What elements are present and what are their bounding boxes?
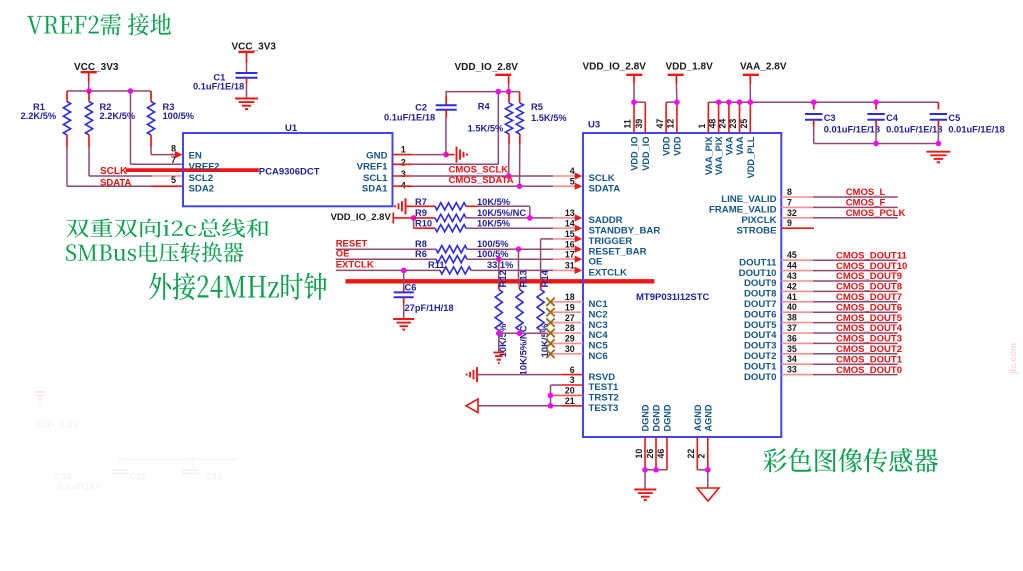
U3 rotated pin name DGND (pin 10) bbox=[641, 404, 651, 431]
wire R10 to STANDBY_BAR pin14 bbox=[466, 225, 582, 232]
svg-text:CMOS_L: CMOS_L bbox=[846, 187, 886, 198]
node junction VAA bus x=718.6 bbox=[716, 99, 722, 105]
svg-text:18: 18 bbox=[565, 292, 575, 302]
U3 rotated pin number 2 bbox=[697, 454, 707, 459]
svg-text:SDA1: SDA1 bbox=[362, 183, 388, 194]
U3 pin name STANDBY_BAR bbox=[589, 225, 661, 236]
power symbol VDD_1.8V (U3) bbox=[666, 61, 714, 102]
svg-text:100/5%: 100/5% bbox=[163, 111, 195, 121]
power symbol VCC_3V3 (above C1) bbox=[232, 42, 277, 74]
annotation text '外接24MHz时钟' (green) bbox=[149, 273, 327, 301]
wire VREF1 pin2 riser bbox=[393, 92, 499, 165]
svg-text:25: 25 bbox=[739, 119, 749, 129]
wire R3 to EN pin 8 bbox=[151, 147, 183, 158]
wire R2 to SCL2 bbox=[89, 147, 183, 176]
U3 pin number 8 (LINE_VALID) bbox=[787, 187, 792, 197]
svg-text:C2: C2 bbox=[415, 103, 427, 113]
svg-text:VAA_2.8V: VAA_2.8V bbox=[740, 61, 787, 72]
svg-text:0.01uF/1E/18: 0.01uF/1E/18 bbox=[886, 124, 942, 134]
resistor R13 bbox=[516, 270, 530, 375]
svg-text:VAA_PIX: VAA_PIX bbox=[704, 136, 714, 176]
power symbol VDD_IO_2.8V (above R4/R5) bbox=[455, 62, 519, 92]
svg-text:NC5: NC5 bbox=[589, 341, 609, 352]
svg-text:24: 24 bbox=[718, 119, 728, 129]
wire VAA top bus bbox=[708, 101, 938, 103]
U3 pin name DOUT2 bbox=[744, 351, 777, 362]
svg-text:7: 7 bbox=[787, 197, 792, 207]
annotation text 'SMBus电压转换器' (green) bbox=[66, 242, 244, 263]
U3 pin name EXTCLK bbox=[589, 268, 627, 279]
net label CMOS_DOUT11 (red) bbox=[836, 250, 907, 261]
svg-text:CMOS_DOUT2: CMOS_DOUT2 bbox=[836, 344, 902, 355]
U1 pin name SCL1 bbox=[363, 173, 388, 184]
faint pink watermark right edge bbox=[1008, 343, 1018, 375]
U3 pin number 43 (DOUT9) bbox=[787, 271, 797, 281]
wire TEST3 pin21 bbox=[478, 405, 583, 407]
wire RSVD pin6 bbox=[477, 374, 583, 376]
wire CMOS_PCLK net bbox=[781, 217, 897, 219]
svg-text:DOUT2: DOUT2 bbox=[744, 351, 777, 362]
svg-text:C3: C3 bbox=[824, 113, 836, 123]
wire CMOS_F net bbox=[781, 206, 897, 208]
U3 rotated pin name AGND (pin 22) bbox=[693, 404, 703, 431]
svg-text:VDD_IO_2.8V: VDD_IO_2.8V bbox=[583, 61, 647, 72]
U3 rotated pin number 25 bbox=[739, 119, 749, 129]
svg-text:C10: C10 bbox=[55, 472, 72, 482]
node junction C6/EXTCLK bbox=[401, 268, 407, 274]
U3 pin number 3 (TEST1) bbox=[570, 375, 575, 385]
wire R5 to SDATA bbox=[519, 144, 521, 186]
U3 pin number 9 (STROBE) bbox=[787, 218, 792, 228]
wire CMOS_L net bbox=[781, 196, 897, 198]
svg-text:4: 4 bbox=[401, 180, 406, 190]
U1 pin name VREF2 bbox=[189, 162, 220, 173]
wire CMOS_DOUT11 net bbox=[781, 259, 897, 261]
svg-text:NC6: NC6 bbox=[589, 351, 608, 362]
U3 pin stub 48 (VAA_PIX) bbox=[718, 102, 720, 133]
net label RESET (red) bbox=[336, 239, 368, 250]
wire CMOS_DOUT9 net bbox=[781, 280, 897, 282]
U1 pin number 8 bbox=[171, 143, 176, 153]
svg-text:R4: R4 bbox=[478, 102, 491, 112]
wire EXTCLK to R11 bbox=[336, 269, 440, 271]
U1 pin name SCL2 bbox=[189, 173, 214, 184]
wire CMOS_DOUT10 net bbox=[781, 270, 897, 272]
svg-text:29: 29 bbox=[565, 334, 575, 344]
svg-text:PIXCLK: PIXCLK bbox=[741, 215, 776, 226]
power symbol VDD_IO_2.8V (U3) bbox=[583, 61, 647, 102]
U3 pin number 34 (DOUT1) bbox=[787, 354, 797, 364]
svg-text:5: 5 bbox=[171, 175, 176, 185]
U3 rotated pin number 48 bbox=[707, 119, 717, 129]
node junction C4 top bbox=[873, 99, 879, 105]
svg-text:R5: R5 bbox=[531, 102, 543, 112]
net label CMOS_DOUT2 (red) bbox=[836, 344, 902, 355]
U3 pin name SADDR bbox=[589, 215, 623, 226]
U3 pin name TRIGGER bbox=[589, 236, 633, 247]
U3 pin number 42 (DOUT8) bbox=[787, 281, 797, 291]
svg-text:12: 12 bbox=[666, 119, 676, 129]
U1 pin name SDA1 bbox=[362, 183, 388, 194]
resistor R14 bbox=[537, 269, 551, 357]
U3 pin name LINE_VALID bbox=[721, 194, 776, 205]
U3 pin number 32 (PIXCLK) bbox=[787, 208, 797, 218]
U3 rotated pin name DGND (pin 46) bbox=[663, 404, 673, 431]
wire R12-R14 bottom bus bbox=[499, 330, 548, 333]
svg-text:NC3: NC3 bbox=[589, 320, 608, 331]
node junction VAA bus x=739.5 bbox=[737, 99, 743, 105]
U1 pin name SDA2 bbox=[189, 183, 215, 194]
svg-text:EXTCLK: EXTCLK bbox=[589, 268, 627, 279]
svg-text:DOUT1: DOUT1 bbox=[744, 361, 777, 372]
svg-text:44: 44 bbox=[787, 261, 797, 271]
svg-text:R11: R11 bbox=[428, 260, 445, 270]
IC U3 box (MT9P031I12STC image sensor) bbox=[583, 120, 781, 438]
svg-text:10: 10 bbox=[634, 449, 644, 459]
svg-text:R13: R13 bbox=[519, 270, 530, 287]
svg-text:CMOS_DOUT11: CMOS_DOUT11 bbox=[836, 250, 907, 261]
svg-text:C11: C11 bbox=[130, 472, 147, 482]
svg-text:NC2: NC2 bbox=[589, 309, 608, 320]
ground (C5 bus) bbox=[926, 152, 950, 163]
wire CMOS_SDATA net bbox=[393, 183, 583, 190]
U3 pin number 33 (DOUT0) bbox=[787, 365, 797, 375]
U3 pin number 30 (NC6) bbox=[565, 344, 575, 354]
wire CMOS_DOUT2 net bbox=[781, 353, 897, 355]
U3 rotated pin name VDD_IO (pin 11) bbox=[630, 137, 640, 171]
annotation text '彩色图像传感器' (green) bbox=[763, 448, 938, 473]
svg-text:VAA: VAA bbox=[724, 136, 734, 155]
wire R12 riser bbox=[498, 259, 500, 289]
svg-text:CMOS_PCLK: CMOS_PCLK bbox=[846, 208, 906, 219]
U3 pin number 21 (TEST3) bbox=[565, 396, 575, 406]
svg-text:100/5%: 100/5% bbox=[477, 239, 509, 249]
svg-text:2.2K/5%: 2.2K/5% bbox=[21, 111, 57, 121]
resistor R4 bbox=[468, 92, 513, 145]
svg-text:VDD: VDD bbox=[662, 136, 672, 156]
svg-text:VDD_IO_2.8V: VDD_IO_2.8V bbox=[455, 62, 519, 73]
svg-text:14: 14 bbox=[565, 218, 575, 228]
svg-text:17: 17 bbox=[565, 249, 575, 259]
resistor R12 bbox=[495, 270, 509, 357]
U3 pin name DOUT9 bbox=[744, 278, 777, 289]
ground (sideways, RSVD) bbox=[467, 367, 477, 382]
thick red SCLK highlight line bbox=[126, 168, 259, 172]
resistor R9 bbox=[414, 208, 527, 222]
U3 pin name DOUT8 bbox=[744, 289, 777, 300]
U3 pin number 35 (DOUT2) bbox=[787, 344, 797, 354]
U3 pin number 6 (RSVD) bbox=[570, 365, 575, 375]
net label CMOS_DOUT0 (red) bbox=[836, 365, 902, 376]
svg-text:SDATA: SDATA bbox=[589, 183, 621, 194]
capacitor C1 bbox=[193, 72, 258, 91]
svg-text:GND: GND bbox=[366, 151, 387, 162]
ground (R12 bus) bbox=[493, 353, 504, 364]
U3 pin number 17 (OE) bbox=[565, 249, 575, 259]
U3 pin name TEST1 bbox=[589, 382, 620, 393]
svg-text:22: 22 bbox=[686, 449, 696, 459]
U3 pin name NC1 bbox=[589, 299, 609, 310]
wire NC5 stub with no-connect X bbox=[546, 339, 583, 347]
U3 pin stubs 10/26/46 (DGND) bbox=[645, 437, 667, 470]
U3 pin number 14 (STANDBY_BAR) bbox=[565, 218, 575, 228]
U1 pin number 5 bbox=[171, 175, 176, 185]
svg-text:DGND: DGND bbox=[663, 404, 673, 431]
svg-text:DGND: DGND bbox=[641, 404, 651, 431]
U3 rotated pin name VAA_PIX (pin 1) bbox=[704, 136, 714, 176]
node junction C5 bottom bbox=[936, 141, 942, 147]
node junction power/top net bbox=[506, 89, 512, 95]
net label EXTCLK (red) bbox=[336, 260, 374, 271]
wire R1 to SDA2 bbox=[67, 147, 183, 186]
U1 pin number 2 bbox=[401, 157, 406, 167]
ground (sideways, R7) bbox=[395, 198, 435, 214]
svg-text:CMOS_DOUT1: CMOS_DOUT1 bbox=[836, 354, 903, 365]
wire TRIGGER riser to R14 bbox=[541, 235, 583, 289]
node junction VREF2 tap bbox=[128, 88, 134, 94]
U3 pin name SCLK bbox=[589, 173, 615, 184]
resistor R7 bbox=[415, 197, 511, 210]
U3 pin name NC2 bbox=[589, 309, 608, 320]
svg-text:SDA2: SDA2 bbox=[189, 183, 215, 194]
svg-text:6: 6 bbox=[570, 365, 575, 375]
U3 pin stub 23 (VAA) bbox=[739, 102, 741, 133]
svg-text:45: 45 bbox=[787, 250, 797, 260]
svg-text:32: 32 bbox=[787, 208, 797, 218]
U3 rotated pin number 26 bbox=[645, 449, 655, 459]
svg-text:DOUT10: DOUT10 bbox=[739, 268, 777, 279]
svg-text:10K/5%: 10K/5% bbox=[477, 219, 511, 229]
wire NC4 stub with no-connect X bbox=[546, 329, 583, 337]
node junction R5/SDATA bbox=[517, 183, 523, 189]
U3 pin number 13 (SADDR) bbox=[565, 208, 575, 218]
svg-text:37: 37 bbox=[787, 323, 797, 333]
U3 pin stub 1 (VAA_PIX) bbox=[707, 102, 709, 133]
U3 rotated pin number 47 bbox=[655, 119, 665, 129]
svg-text:MT9P031I12STC: MT9P031I12STC bbox=[636, 292, 710, 303]
svg-text:3: 3 bbox=[401, 169, 406, 179]
svg-text:5: 5 bbox=[570, 176, 575, 186]
ground (sideways, U1 GND) bbox=[446, 147, 467, 163]
U3 pin name NC6 bbox=[589, 351, 608, 362]
net label CMOS_SDATA (red) bbox=[449, 175, 514, 186]
U3 pin name DOUT4 bbox=[744, 330, 777, 341]
svg-text:VDD_2.8V: VDD_2.8V bbox=[34, 420, 80, 431]
node junction R4/SCLK bbox=[506, 173, 512, 179]
net label CMOS_DOUT5 (red) bbox=[836, 313, 903, 324]
svg-text:jlc.com: jlc.com bbox=[1008, 343, 1018, 375]
wire CMOS_DOUT7 net bbox=[781, 301, 897, 303]
svg-text:R10: R10 bbox=[415, 219, 432, 229]
U3 pin number 31 (EXTCLK) bbox=[565, 261, 575, 271]
U3 pin number 19 (NC2) bbox=[565, 302, 575, 312]
svg-text:38: 38 bbox=[787, 313, 797, 323]
svg-text:DOUT5: DOUT5 bbox=[744, 320, 777, 331]
wire CMOS_DOUT8 net bbox=[781, 290, 897, 292]
wire DGND to ground bbox=[644, 470, 646, 490]
svg-text:EXTCLK: EXTCLK bbox=[336, 260, 374, 271]
node junction VDD bbox=[674, 99, 680, 105]
node junction R13 bottom bbox=[517, 331, 523, 337]
svg-text:LINE_VALID: LINE_VALID bbox=[721, 194, 776, 205]
wire CMOS_DOUT4 net bbox=[781, 332, 897, 334]
svg-text:11: 11 bbox=[623, 119, 633, 128]
U3 rotated pin name VDD (pin 47) bbox=[662, 136, 672, 156]
svg-text:1.5K/5%: 1.5K/5% bbox=[531, 113, 567, 123]
U3 rotated pin name AGND (pin 2) bbox=[703, 404, 713, 431]
svg-text:RSVD: RSVD bbox=[589, 372, 616, 383]
net label CMOS_DOUT1 (red) bbox=[836, 354, 903, 365]
svg-text:27pF/1H/18: 27pF/1H/18 bbox=[405, 303, 454, 313]
net label CMOS_DOUT9 (red) bbox=[836, 271, 902, 282]
no-ERC marker triangle (TEST3) bbox=[466, 399, 478, 413]
U3 pin number 36 (DOUT3) bbox=[787, 333, 797, 343]
U3 pin name DOUT11 bbox=[739, 257, 777, 268]
svg-text:7: 7 bbox=[171, 155, 176, 165]
svg-text:0.1uF/1E/18: 0.1uF/1E/18 bbox=[193, 82, 244, 92]
U3 pin number 15 (TRIGGER) bbox=[565, 229, 575, 239]
wire R9/R10 left riser bbox=[413, 218, 415, 228]
U3 pin number 16 (RESET_BAR) bbox=[565, 239, 575, 249]
U3 pin number 45 (DOUT11) bbox=[787, 250, 797, 260]
svg-text:DGND: DGND bbox=[652, 404, 662, 431]
svg-text:R6: R6 bbox=[415, 249, 427, 259]
svg-text:1.5K/5%: 1.5K/5% bbox=[468, 124, 504, 134]
wire C1 to ground bbox=[246, 78, 248, 99]
U3 pin stubs 11/39 (VDD_IO) bbox=[634, 102, 645, 133]
U3 rotated pin number 46 bbox=[656, 449, 666, 459]
annotation text 'VREF2需 接地' (green) bbox=[27, 13, 171, 35]
U3 pin name DOUT1 bbox=[744, 361, 777, 372]
svg-text:13: 13 bbox=[565, 208, 575, 218]
U3 pin name STROBE bbox=[737, 225, 778, 236]
U3 pin name DOUT10 bbox=[739, 268, 777, 279]
U3 rotated pin number 39 bbox=[634, 119, 644, 129]
wire CMOS_DOUT5 net bbox=[781, 322, 897, 324]
svg-text:15: 15 bbox=[565, 229, 575, 239]
svg-text:CMOS_SCLK: CMOS_SCLK bbox=[449, 164, 509, 175]
U3 pin name FRAME_VALID bbox=[709, 205, 777, 216]
U1 pin name VREF1 bbox=[357, 162, 389, 173]
U3 rotated pin number 12 bbox=[666, 119, 676, 129]
svg-text:R9: R9 bbox=[415, 208, 427, 218]
svg-text:16: 16 bbox=[565, 239, 575, 249]
node junction C4 bottom bbox=[873, 141, 879, 147]
ground (C1) bbox=[235, 99, 258, 110]
U3 rotated pin name VDD_PLL (pin 25) bbox=[746, 136, 756, 178]
wire TEST1 pin3 to TRST2/TEST3 bbox=[551, 385, 584, 406]
node junction C3 top bbox=[811, 99, 817, 105]
U3 pin name DOUT3 bbox=[744, 341, 777, 352]
U3 pin stubs 22/2 (AGND) bbox=[697, 437, 708, 470]
svg-text:30: 30 bbox=[565, 344, 575, 354]
svg-text:STROBE: STROBE bbox=[737, 225, 778, 236]
svg-text:SDATA: SDATA bbox=[100, 178, 131, 189]
faint ghost watermark (C10-C12 fragment) bbox=[34, 392, 237, 492]
svg-text:AGND: AGND bbox=[693, 404, 703, 431]
capacitor C2 bbox=[384, 92, 457, 123]
wire CMOS_DOUT1 net bbox=[781, 363, 897, 365]
node junction VDD_IO bbox=[631, 99, 637, 105]
node junction R12/OE bbox=[496, 256, 502, 262]
svg-text:28: 28 bbox=[565, 323, 575, 333]
svg-text:CMOS_DOUT5: CMOS_DOUT5 bbox=[836, 313, 903, 324]
net label CMOS_DOUT3 (red) bbox=[836, 334, 902, 345]
svg-text:R12: R12 bbox=[498, 270, 509, 287]
svg-text:48: 48 bbox=[707, 119, 717, 129]
node junction VDD_IO/R9 bbox=[411, 215, 417, 221]
U3 pin number 28 (NC4) bbox=[565, 323, 575, 333]
svg-text:PCA9306DCT: PCA9306DCT bbox=[259, 167, 320, 178]
U3 pin stub 25 (VDD_PLL) bbox=[749, 102, 751, 133]
svg-text:0.1uF/16V: 0.1uF/16V bbox=[58, 482, 102, 492]
U3 pin number 4 (SCLK) bbox=[570, 166, 575, 176]
svg-text:26: 26 bbox=[645, 449, 655, 459]
svg-text:33: 33 bbox=[787, 365, 797, 375]
capacitor C4 bbox=[867, 102, 942, 143]
U3 rotated pin name VAA (pin 23) bbox=[735, 136, 745, 155]
net label SDATA (red) bbox=[100, 178, 131, 189]
net label CMOS_PCLK (red) bbox=[846, 208, 906, 219]
svg-text:TEST3: TEST3 bbox=[589, 403, 619, 414]
svg-text:C4: C4 bbox=[886, 113, 899, 123]
resistor R11 bbox=[428, 260, 514, 274]
svg-text:27: 27 bbox=[565, 313, 575, 323]
svg-text:DOUT4: DOUT4 bbox=[744, 330, 777, 341]
node junction TEST3 bbox=[548, 403, 554, 409]
net label CMOS_SCLK (red) bbox=[449, 164, 509, 175]
wire R9 to SADDR pin13 bbox=[466, 214, 582, 221]
svg-text:EN: EN bbox=[189, 151, 202, 162]
svg-text:8: 8 bbox=[787, 187, 792, 197]
U3 pin number 44 (DOUT10) bbox=[787, 261, 797, 271]
node junction DGND b bbox=[653, 467, 659, 473]
resistor R10 bbox=[414, 219, 511, 232]
svg-text:CMOS_DOUT7: CMOS_DOUT7 bbox=[836, 292, 902, 303]
U3 pin number 41 (DOUT7) bbox=[787, 292, 797, 302]
wire OE to R6 bbox=[336, 258, 436, 260]
svg-text:DOUT0: DOUT0 bbox=[744, 372, 777, 383]
wire TRST2 pin20 bbox=[551, 394, 584, 396]
wire C2 bottom to GND node bbox=[445, 110, 447, 155]
svg-text:CMOS_DOUT9: CMOS_DOUT9 bbox=[836, 271, 902, 282]
U3 pin number 20 (TRST2) bbox=[565, 386, 575, 396]
U1 part name PCA9306DCT bbox=[259, 167, 320, 178]
svg-text:1: 1 bbox=[697, 124, 707, 129]
svg-text:R14: R14 bbox=[540, 269, 551, 287]
svg-text:20: 20 bbox=[565, 386, 575, 396]
svg-text:STANDBY_BAR: STANDBY_BAR bbox=[589, 225, 661, 236]
thick red 24MHz highlight line bbox=[346, 279, 655, 283]
svg-text:39: 39 bbox=[634, 119, 644, 129]
svg-text:2: 2 bbox=[697, 454, 707, 459]
capacitor C6 bbox=[394, 270, 454, 312]
U1 pin number 1 bbox=[401, 144, 406, 154]
svg-text:VDD_IO: VDD_IO bbox=[630, 137, 640, 171]
node junction VAA bus x=750.3 bbox=[748, 99, 754, 105]
svg-text:SCLK: SCLK bbox=[100, 166, 128, 177]
svg-text:21: 21 bbox=[565, 396, 575, 406]
wire C6 to ground bbox=[403, 297, 405, 319]
U3 pin number 38 (DOUT5) bbox=[787, 313, 797, 323]
svg-text:AGND: AGND bbox=[703, 404, 713, 431]
U3 pin number 7 (FRAME_VALID) bbox=[787, 197, 792, 207]
node junction GND/C2 bbox=[443, 152, 449, 158]
svg-text:46: 46 bbox=[656, 449, 666, 459]
capacitor C3 bbox=[805, 102, 880, 143]
U3 pin name NC5 bbox=[589, 341, 609, 352]
U3 rotated pin name VDD_IO (pin 39) bbox=[641, 137, 651, 171]
